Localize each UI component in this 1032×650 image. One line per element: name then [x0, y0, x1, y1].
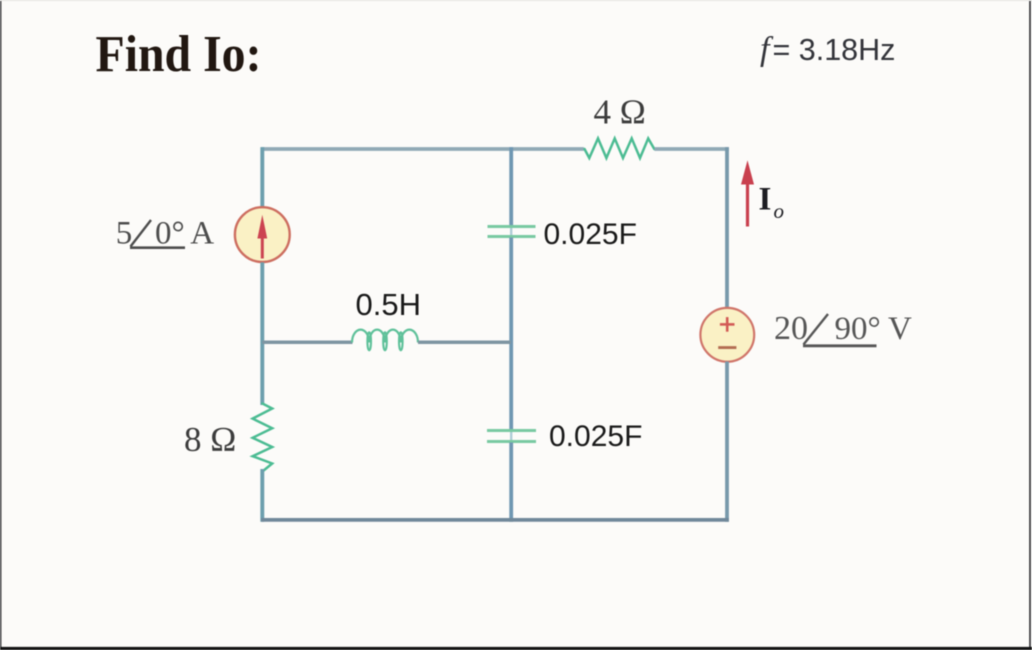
wire: middle vertical lower segment [509, 443, 513, 522]
capacitor 0.025F lower plates [487, 431, 536, 442]
svg-text:Find Io:: Find Io: [96, 26, 262, 83]
value label 4 ohm [594, 92, 646, 131]
title "Find Io:" [96, 26, 262, 83]
wire: middle horizontal left segment [262, 340, 352, 344]
value label 8 ohm [184, 420, 236, 459]
value label 0.5H [356, 287, 421, 322]
voltage source 20/90 V [700, 308, 754, 362]
wire: right vertical upper segment [725, 147, 729, 307]
svg-text:0°: 0° [155, 216, 185, 252]
svg-text:5: 5 [116, 216, 133, 252]
current label Io [759, 181, 785, 222]
svg-text:V: V [888, 311, 912, 347]
output current arrow Io [741, 160, 754, 226]
wire: middle vertical center segment [509, 238, 513, 431]
wire: left vertical middle segment [260, 262, 264, 405]
capacitor 0.025F upper plates [488, 227, 536, 237]
value label 0.025F lower [549, 420, 642, 453]
source label 5 angle 0 deg A [116, 216, 215, 252]
wire: right vertical lower segment [725, 362, 729, 522]
current source 5/0 A [235, 207, 290, 262]
svg-text:A: A [190, 216, 214, 252]
inductor 0.5H coil [352, 330, 418, 351]
wire: top horizontal right segment [655, 147, 729, 151]
wire: top horizontal left segment [261, 147, 584, 151]
frequency label f = 3.18Hz [760, 31, 895, 68]
resistor 8 ohm zigzag [253, 404, 273, 472]
svg-text:90°: 90° [835, 311, 881, 347]
wire: left vertical upper segment [260, 147, 264, 207]
source label 20 angle 90 deg V [774, 310, 912, 347]
svg-text:0.5H: 0.5H [356, 287, 421, 322]
svg-text:= 3.18Hz: = 3.18Hz [773, 33, 896, 67]
value label 0.025F upper [544, 218, 637, 251]
wire: left vertical lower segment [260, 469, 264, 522]
svg-text:o: o [774, 199, 785, 223]
svg-text:8 Ω: 8 Ω [184, 420, 236, 459]
resistor 4 ohm zigzag [585, 138, 655, 158]
svg-text:0.025F: 0.025F [549, 420, 642, 453]
wire: middle vertical upper segment [509, 147, 513, 225]
svg-text:20: 20 [774, 310, 808, 347]
wire: middle horizontal right segment [418, 340, 511, 344]
svg-text:0.025F: 0.025F [544, 218, 637, 251]
svg-text:I: I [759, 181, 772, 217]
svg-text:4 Ω: 4 Ω [594, 92, 646, 131]
wire: bottom horizontal segment [261, 518, 729, 522]
